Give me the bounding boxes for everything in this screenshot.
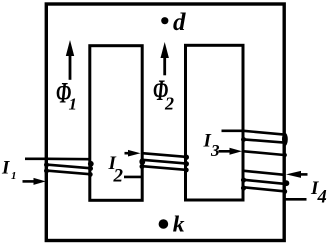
svg-text:2: 2 [113,165,124,186]
flux arrow Phi1 [66,40,74,80]
core outer boundary [46,4,284,241]
label d [173,9,186,36]
current arrow I3 [219,148,243,155]
svg-text:1: 1 [69,95,78,114]
current arrow I2 [125,150,141,157]
label I2 [108,153,124,186]
svg-text:k: k [173,212,185,238]
label I4 [310,178,327,207]
label Phi1 [56,78,77,114]
right core window [186,45,244,200]
winding W3 on right limb [222,131,288,158]
svg-text:I: I [1,158,10,179]
svg-text:4: 4 [317,187,327,207]
label I1 [1,158,17,183]
svg-text:1: 1 [11,170,17,182]
node k [159,219,169,229]
svg-text:d: d [173,9,186,36]
winding W2 on middle limb [124,153,189,177]
flux arrow Phi2 [161,42,169,75]
node d [161,17,168,24]
winding W4 on right limb [241,171,307,200]
svg-text:3: 3 [210,141,220,160]
label k [173,212,185,238]
current arrow I4 [286,171,308,178]
current arrow I1 [23,178,46,185]
label I3 [203,131,221,161]
svg-text:2: 2 [164,93,174,113]
left core window [90,46,142,201]
winding W1 on left limb [25,159,94,177]
label Phi2 [153,75,174,114]
